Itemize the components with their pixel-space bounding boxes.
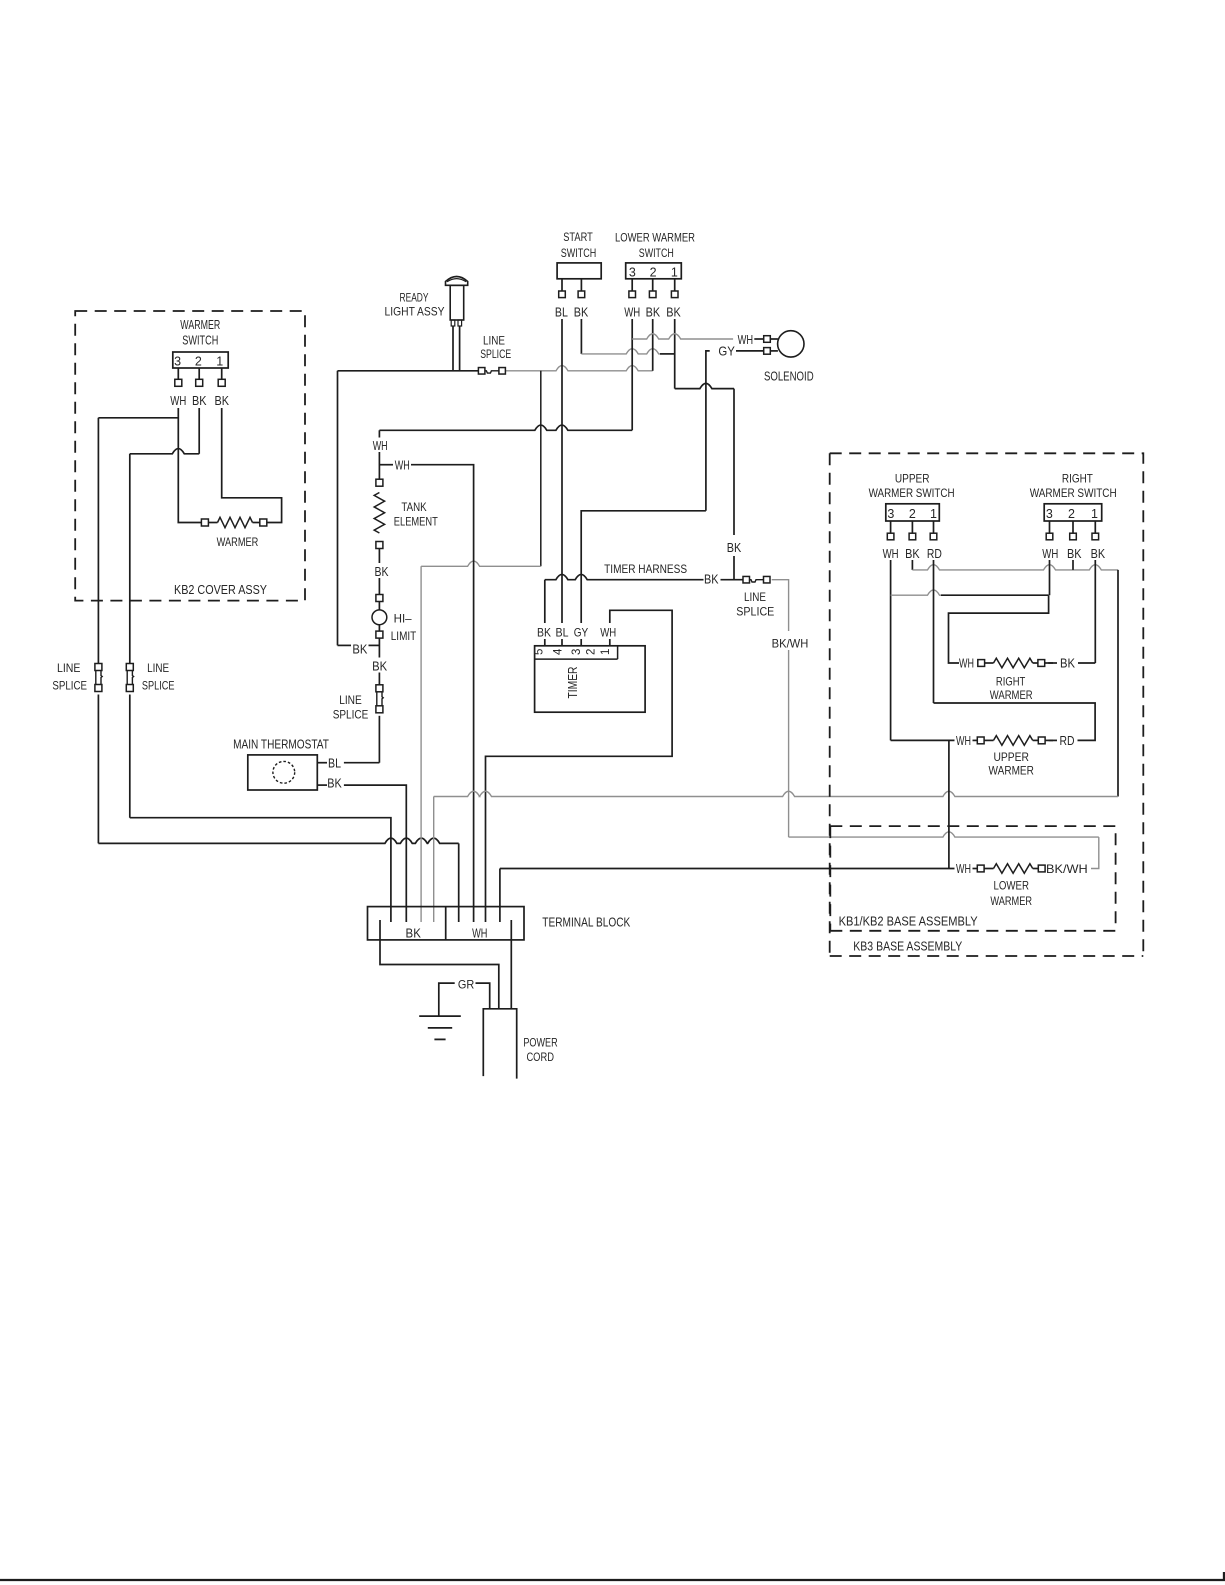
right warmer pin 3 stub: [1049, 521, 1051, 533]
wire x421 drop to terminal block: [420, 566, 422, 922]
lower warmer lead: [984, 868, 993, 870]
lower warmer pin 3 stub: [631, 279, 633, 291]
second line splice symbol: [126, 664, 133, 671]
wire timer pin1 WH upper: [609, 639, 611, 646]
start switch body: [557, 263, 601, 279]
right warmer pin 2 stub: [1072, 521, 1074, 533]
svg-text:SPLICE: SPLICE: [142, 678, 175, 692]
wire hi-limit top lead: [378, 602, 380, 611]
svg-text:SPLICE: SPLICE: [52, 678, 87, 692]
svg-text:WARMER: WARMER: [989, 764, 1035, 778]
svg-text:RIGHT: RIGHT: [996, 675, 1026, 689]
svg-text:SPLICE: SPLICE: [333, 707, 369, 721]
wire WH link to right switch: [891, 590, 941, 595]
wire lower warmer WH drop: [948, 740, 950, 868]
svg-text:WARMER SWITCH: WARMER SWITCH: [1030, 486, 1117, 500]
svg-text:BK/WH: BK/WH: [772, 636, 809, 650]
solenoid body: [778, 331, 804, 357]
svg-text:BK: BK: [214, 393, 229, 408]
svg-text:BK: BK: [192, 393, 207, 408]
wire left splice WH vertical upper: [97, 418, 99, 664]
wire right line-splice to BK/WH drop: [772, 580, 789, 631]
svg-text:3: 3: [1046, 507, 1053, 521]
svg-text:4: 4: [552, 648, 564, 655]
svg-text:BK: BK: [1067, 546, 1082, 561]
svg-text:LINE: LINE: [744, 590, 766, 604]
svg-text:RD: RD: [927, 546, 942, 561]
svg-text:BK: BK: [727, 540, 742, 555]
svg-text:RIGHT: RIGHT: [1062, 472, 1094, 486]
wire vertical drop x337 to BK junction: [337, 371, 339, 646]
wire GY elbow to timer pin3: [581, 511, 706, 623]
wire start-switch BL down to timer pin4 lower: [561, 639, 563, 646]
lower warmer lead2: [1033, 868, 1039, 870]
solenoid GY terminal lead: [770, 350, 778, 352]
svg-text:1: 1: [1091, 507, 1098, 521]
svg-text:SOLENOID: SOLENOID: [764, 368, 814, 383]
svg-text:WARMER: WARMER: [990, 688, 1033, 702]
right warmer right terminal: [1038, 660, 1045, 667]
svg-text:ELEMENT: ELEMENT: [394, 514, 439, 528]
wire right warmer BK tick: [1048, 662, 1057, 664]
svg-text:LOWER WARMER: LOWER WARMER: [615, 231, 695, 245]
warmer switch pin 3 stub: [177, 368, 179, 379]
svg-text:WH: WH: [1042, 546, 1058, 561]
wire splice to lower-warmer pin2 BK: [506, 366, 653, 371]
wire GR right tick: [476, 983, 490, 1009]
wire RD elbow: [934, 703, 1096, 740]
svg-text:WH: WH: [738, 332, 754, 347]
solenoid WH terminal: [764, 336, 771, 343]
svg-text:LINE: LINE: [147, 661, 169, 675]
svg-text:CORD: CORD: [526, 1050, 554, 1064]
svg-text:BK: BK: [375, 564, 389, 579]
wire block BK down to power cord: [380, 920, 499, 1009]
wire BK bus to right switch: [912, 565, 1118, 570]
svg-text:UPPER: UPPER: [993, 750, 1029, 764]
wire node ready-light to vertical drop: [338, 370, 479, 372]
right warmer lead: [985, 662, 994, 664]
lower warmer left terminal: [977, 865, 984, 872]
svg-text:BK: BK: [537, 626, 551, 640]
wire right-warmer-switch pin1 BK down upper: [1094, 560, 1096, 663]
svg-text:WH: WH: [624, 305, 640, 320]
wire WH drop into block: [499, 869, 501, 923]
wire timer pin1 WH elbow: [486, 610, 673, 922]
wire WH run drop into terminal block: [458, 843, 460, 922]
wire tank BK segment: [378, 578, 380, 595]
svg-text:KB2 COVER ASSY: KB2 COVER ASSY: [174, 582, 267, 597]
center line splice symbol: [376, 685, 383, 692]
svg-text:TERMINAL BLOCK: TERMINAL BLOCK: [542, 914, 630, 929]
wire upper-warmer-switch pin2 BK elbow: [911, 560, 913, 570]
svg-text:BK: BK: [666, 305, 681, 320]
wire BK tick right segment: [369, 644, 380, 646]
svg-text:WARMER: WARMER: [217, 535, 259, 549]
svg-text:RD: RD: [1060, 733, 1075, 748]
wire second splice BK vertical upper: [129, 454, 131, 664]
svg-text:SPLICE: SPLICE: [480, 347, 511, 361]
lower warmer switch body: [626, 263, 682, 279]
svg-text:GR: GR: [458, 978, 475, 992]
svg-text:KB1/KB2 BASE ASSEMBLY: KB1/KB2 BASE ASSEMBLY: [839, 913, 978, 928]
wire terminal block WH to lower warmer: [500, 868, 955, 870]
svg-text:WH: WH: [600, 626, 616, 640]
warmer switch pin 2 stub: [198, 368, 200, 379]
wire tank WH mid segment: [378, 452, 380, 479]
upper warmer lead2: [1033, 739, 1039, 741]
main thermostat body: [248, 755, 317, 790]
wire BK bus drop into block: [433, 797, 435, 923]
solenoid WH terminal lead: [770, 338, 778, 340]
wire timer pin5 BK drop upper: [544, 580, 546, 623]
svg-text:KB3 BASE ASSEMBLY: KB3 BASE ASSEMBLY: [853, 939, 962, 954]
svg-text:LINE: LINE: [483, 334, 505, 348]
wire warmer-switch pin1 BK to warmer resistor: [222, 408, 282, 523]
warmer resistor element: [208, 522, 217, 524]
svg-text:HI–: HI–: [394, 612, 412, 626]
svg-text:WARMER: WARMER: [990, 894, 1032, 908]
wire warmer-switch pin2 BK elbow left: [198, 408, 200, 454]
svg-text:BL: BL: [555, 305, 568, 320]
wire branch WH pin3 to left line-splice wire: [98, 417, 178, 419]
hi-limit body: [372, 610, 387, 625]
wire WH right elbow to right warmer: [949, 595, 1049, 663]
tank element resistor: [374, 493, 384, 534]
svg-text:BL: BL: [556, 626, 569, 640]
right warmer resistor element: [994, 658, 1033, 668]
wire BK drop upper: [733, 389, 735, 535]
wire GY into timer pin3: [580, 639, 582, 646]
wire BK bus drop x1118: [1117, 570, 1119, 797]
right warmer lead2: [1033, 662, 1038, 664]
wire upper-warmer-switch pin3 WH down: [890, 560, 892, 740]
lower warmer pin 1 stub: [674, 279, 676, 291]
svg-text:SWITCH: SWITCH: [561, 246, 597, 260]
upper warmer lead: [984, 739, 993, 741]
wire right-warmer-switch pin3 WH down: [1049, 560, 1051, 595]
wire hi-limit to BK junction: [378, 639, 380, 658]
svg-text:MAIN THERMOSTAT: MAIN THERMOSTAT: [233, 736, 329, 751]
svg-text:GY: GY: [718, 343, 735, 358]
wire BK to center line splice: [378, 673, 380, 685]
wire right-warmer-switch pin2 BK down: [1072, 560, 1074, 570]
wire timer pin5 BK drop lower: [544, 639, 546, 646]
wire ready light right pin down: [459, 326, 461, 371]
wire lower-warmer pin3 WH down: [631, 319, 633, 430]
ground symbol: [419, 1015, 461, 1017]
wire WH run to terminal block: [98, 838, 458, 843]
start switch pin BL stub: [561, 279, 563, 291]
svg-text:1: 1: [216, 355, 223, 369]
svg-text:BK: BK: [704, 572, 719, 587]
right warmer left terminal: [978, 660, 985, 667]
warmer switch pin 1 stub: [221, 368, 223, 379]
svg-text:WH: WH: [956, 861, 971, 876]
timer body: [535, 646, 646, 712]
right line splice symbol: [743, 576, 750, 583]
svg-text:SWITCH: SWITCH: [639, 246, 674, 260]
top line splice symbol: [478, 368, 485, 375]
upper warmer pin 1 stub: [933, 521, 935, 533]
svg-text:1: 1: [930, 507, 937, 521]
svg-text:BK: BK: [406, 925, 422, 940]
svg-text:SWITCH: SWITCH: [182, 333, 218, 348]
svg-text:START: START: [563, 230, 593, 244]
ready light pin left: [451, 320, 455, 326]
wire tank WH top segment: [378, 430, 380, 437]
lower warmer pin 2 stub: [652, 279, 654, 291]
svg-text:WH: WH: [883, 546, 899, 561]
wire BK drop lower: [733, 556, 735, 580]
wire tank element lower lead: [378, 549, 380, 564]
svg-text:BK: BK: [1091, 546, 1106, 561]
wire vertical B from splice line down: [540, 371, 542, 567]
hi-limit lower terminal: [376, 631, 383, 638]
wire solenoid GY segment: [736, 350, 764, 352]
svg-text:LINE: LINE: [339, 693, 362, 707]
svg-text:BK: BK: [905, 546, 920, 561]
svg-text:SPLICE: SPLICE: [736, 604, 774, 618]
KB1/KB2 base assembly dashed box: [830, 826, 1115, 931]
wire start-switch BL down to timer pin4 upper: [561, 319, 563, 623]
lower warmer right terminal: [1038, 865, 1045, 872]
svg-text:2: 2: [909, 507, 916, 521]
wire WH elbow to tank element: [379, 425, 632, 430]
wire WH branch to x473: [411, 465, 474, 922]
svg-text:LIMIT: LIMIT: [391, 629, 417, 643]
svg-text:TIMER: TIMER: [565, 667, 580, 699]
timer pin strip: [535, 658, 618, 660]
wire left splice WH vertical lower: [97, 695, 99, 844]
wire ready light left pin down: [452, 326, 454, 371]
warmer resistor right terminal: [260, 519, 267, 526]
svg-text:BK: BK: [327, 776, 342, 791]
wire upper-warmer-switch pin1 RD down: [933, 560, 935, 703]
svg-text:TANK: TANK: [401, 500, 426, 514]
wire BK run to terminal block: [130, 818, 391, 922]
upper warmer pin 3 stub: [890, 521, 892, 533]
svg-text:5: 5: [534, 649, 546, 655]
wire BK/WH elbow to lower warmer: [789, 832, 1099, 837]
wire harness BK tick to junction: [721, 579, 743, 581]
wire WH branch tick: [379, 464, 393, 466]
wire upper warmer row: [891, 739, 955, 741]
upper warmer pin 2 stub: [911, 521, 913, 533]
terminal block divider: [445, 907, 447, 940]
svg-text:WH: WH: [395, 458, 410, 473]
upper warmer resistor element: [994, 736, 1033, 746]
wire thermostat BK elbow to block: [344, 785, 406, 922]
wire start-switch BK elbow: [580, 319, 582, 354]
right warmer switch body: [1044, 504, 1102, 521]
svg-text:WH: WH: [472, 925, 487, 940]
svg-text:WH: WH: [959, 656, 974, 671]
svg-text:BK: BK: [646, 305, 661, 320]
wire lower-warmer pin1 BK down: [674, 319, 676, 389]
wire BK1 across to BK drop: [675, 383, 734, 388]
wire thermostat BL tick: [317, 762, 327, 764]
upper warmer switch body: [886, 504, 940, 521]
svg-text:POWER: POWER: [523, 1036, 558, 1050]
solenoid GY terminal: [764, 348, 771, 355]
wire block WH down to power cord: [510, 920, 512, 1009]
wire hi-limit bottom lead: [378, 625, 380, 631]
svg-text:BL: BL: [328, 756, 341, 771]
wire solenoid WH line: [632, 334, 733, 339]
wire right warmer BK to pin1: [1078, 662, 1095, 664]
svg-text:LINE: LINE: [57, 661, 81, 675]
wire GR left bracket: [439, 983, 455, 1016]
svg-text:1: 1: [671, 265, 678, 279]
KB2 cover assy dashed box: [75, 311, 305, 601]
upper warmer left terminal: [977, 737, 984, 744]
wire upper warmer RD tick: [1049, 739, 1057, 741]
svg-text:BK: BK: [372, 659, 387, 674]
svg-text:1: 1: [600, 649, 612, 655]
svg-text:LIGHT ASSY: LIGHT ASSY: [385, 305, 445, 319]
svg-text:BK: BK: [574, 305, 589, 320]
wire solenoid GY elbow: [706, 351, 710, 511]
svg-text:3: 3: [887, 507, 894, 521]
start switch pin BK stub: [580, 279, 582, 291]
power cord body: [483, 1009, 516, 1079]
svg-text:2: 2: [650, 265, 657, 279]
svg-text:TIMER HARNESS: TIMER HARNESS: [604, 562, 687, 576]
wire second splice BK vertical lower: [129, 695, 131, 818]
wire BK tick into tank wire: [338, 644, 352, 646]
svg-text:BK: BK: [1060, 656, 1075, 671]
svg-text:GY: GY: [574, 626, 589, 640]
svg-text:2: 2: [195, 355, 202, 369]
warmer resistor left terminal: [201, 519, 208, 526]
ready light pin right: [458, 320, 462, 326]
main thermostat sensor circle: [273, 761, 295, 783]
svg-text:UPPER: UPPER: [895, 472, 930, 486]
svg-text:LOWER: LOWER: [993, 879, 1029, 893]
svg-text:3: 3: [571, 649, 583, 655]
bottom border line: [0, 1579, 1225, 1581]
right warmer pin 1 stub: [1094, 521, 1096, 533]
svg-text:READY: READY: [400, 291, 429, 305]
wire solenoid WH tick: [754, 338, 764, 340]
wire thermostat BL to tank column: [344, 762, 380, 764]
wire BK bus run to terminal block: [434, 791, 1118, 796]
svg-text:WH: WH: [373, 438, 388, 453]
upper warmer right terminal: [1038, 737, 1045, 744]
wire timer harness: [545, 574, 704, 579]
svg-text:WH: WH: [170, 393, 186, 408]
wire lower-warmer pin2 BK down: [652, 319, 654, 371]
tank element top terminal: [376, 479, 383, 486]
svg-text:WARMER: WARMER: [180, 317, 220, 332]
wire y566 elbow to x421: [421, 561, 541, 566]
svg-text:BK: BK: [352, 641, 367, 656]
hi-limit upper terminal: [376, 595, 383, 602]
warmer switch body: [173, 352, 228, 368]
svg-text:2: 2: [586, 649, 598, 655]
ready light assy lamp: [446, 277, 468, 286]
tank element bottom terminal: [376, 542, 383, 549]
svg-text:WH: WH: [956, 733, 971, 748]
terminal block body: [368, 907, 525, 940]
wire splice to BL junction: [378, 716, 380, 763]
wire thermostat BK tick: [317, 784, 327, 786]
svg-text:2: 2: [1068, 507, 1075, 521]
svg-text:WARMER SWITCH: WARMER SWITCH: [869, 486, 955, 500]
svg-text:3: 3: [174, 355, 181, 369]
wire BK to lower-warmer pin1: [581, 349, 660, 354]
svg-text:3: 3: [629, 265, 636, 279]
KB3 base assembly dashed box: [830, 453, 1144, 956]
svg-text:BK/WH: BK/WH: [1046, 862, 1088, 876]
wire warmer-switch pin3 WH down to warmer resistor: [178, 408, 201, 523]
wire BK/WH drop lower: [788, 650, 790, 837]
left line splice symbol: [95, 664, 102, 671]
lower warmer resistor element: [994, 864, 1033, 874]
